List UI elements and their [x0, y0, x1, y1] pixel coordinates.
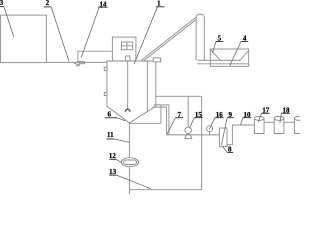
check valve 16: [207, 126, 213, 135]
underline 16: [215, 117, 224, 119]
underline 12: [110, 158, 117, 160]
column 18: [274, 116, 284, 133]
svg-text:9: 9: [229, 111, 233, 119]
nozzle b: [104, 92, 107, 95]
svg-text:10: 10: [244, 111, 252, 119]
svg-text:6: 6: [108, 111, 112, 119]
underline 1: [156, 6, 165, 8]
leader 12: [116, 159, 121, 162]
apex branch pipe: [130, 122, 161, 124]
filter box 9: [219, 128, 227, 146]
leader 9: [221, 118, 227, 146]
leader 18: [280, 113, 282, 123]
bottom return pipe: [129, 189, 201, 191]
transfer elbow outer: [154, 105, 169, 135]
underline 6: [105, 117, 118, 119]
svg-text:16: 16: [216, 111, 224, 119]
underline 9: [227, 117, 234, 119]
transfer elbow inner: [152, 107, 166, 135]
nozzle a: [104, 67, 107, 70]
pipe 18-19: [284, 121, 295, 123]
pump suction drop: [187, 96, 189, 127]
svg-text:8: 8: [228, 146, 232, 154]
trough right baffle: [239, 51, 248, 61]
underline 5: [216, 41, 223, 43]
leader 7: [167, 118, 176, 135]
leader 13: [117, 175, 151, 189]
motor box: [125, 56, 130, 61]
conveyor base box: [153, 58, 161, 62]
underline 18: [281, 112, 290, 114]
mill house 14: [112, 37, 135, 61]
underflow pipe: [128, 123, 130, 194]
column 19 clipped: [294, 116, 304, 133]
leader 15: [190, 118, 195, 129]
pump 15: [185, 127, 192, 138]
window: [122, 42, 133, 50]
leader 6: [117, 118, 125, 121]
svg-text:11: 11: [107, 131, 114, 139]
svg-text:3: 3: [0, 0, 4, 7]
svg-text:7: 7: [177, 111, 181, 119]
screw feeder 2 (valve symbol): [74, 61, 84, 66]
screen trough 4/5: [210, 49, 248, 66]
discharge channel: [197, 60, 248, 64]
leader 2: [51, 7, 69, 61]
underline 11: [106, 138, 114, 140]
svg-text:12: 12: [109, 152, 117, 160]
leader 10: [241, 118, 243, 125]
leader 11: [114, 139, 129, 142]
leader 17: [258, 113, 261, 122]
leader 4: [230, 42, 241, 66]
pump discharge line: [167, 134, 220, 136]
svg-text:1: 1: [157, 0, 161, 8]
underline 7: [176, 117, 184, 119]
leader 16: [209, 118, 215, 130]
feed hopper 3 (big rectangle): [1, 15, 47, 63]
svg-text:4: 4: [243, 35, 247, 43]
bypass pipe to mill house: [78, 51, 113, 61]
svg-text:18: 18: [283, 106, 291, 114]
filter outlet pipe: [227, 125, 232, 145]
leader 8: [223, 147, 228, 153]
svg-text:13: 13: [109, 168, 117, 176]
pipe 17-18: [264, 121, 274, 123]
underline 4: [241, 41, 248, 43]
svg-text:2: 2: [46, 0, 50, 7]
underline 2: [44, 6, 51, 8]
column 17: [254, 116, 264, 133]
svg-text:17: 17: [262, 106, 270, 114]
trough left baffle: [210, 49, 220, 60]
agitator shaft: [127, 61, 129, 109]
riser: [160, 105, 162, 123]
feed pipe: [46, 61, 107, 63]
leader 5: [212, 42, 216, 53]
leader 1: [134, 7, 157, 64]
underline 8: [227, 151, 233, 153]
dip tube: [146, 61, 148, 111]
downcomer: [201, 96, 203, 189]
underline 10: [243, 117, 252, 119]
underline 3: [0, 6, 4, 8]
underline 15: [194, 117, 202, 119]
product pipe 10: [232, 124, 254, 126]
underline 17: [262, 112, 270, 114]
underline 14: [98, 6, 107, 8]
reaction tank 1: [107, 61, 156, 123]
svg-text:5: 5: [218, 35, 222, 43]
conveyor belt: [141, 17, 196, 61]
svg-text:15: 15: [195, 111, 203, 119]
underline 13: [109, 174, 117, 176]
svg-text:14: 14: [100, 0, 108, 8]
overflow pipe: [156, 95, 202, 97]
leader 3: [4, 7, 14, 38]
solvent oval 12: [121, 158, 138, 167]
agitator anchor: [125, 109, 130, 112]
leader 14: [81, 7, 99, 57]
conveyor head post: [196, 14, 204, 60]
